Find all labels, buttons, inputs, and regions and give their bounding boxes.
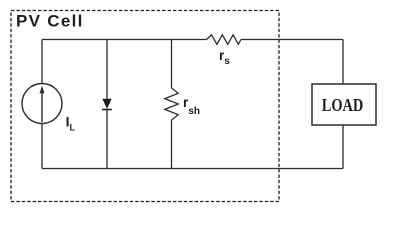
svg-text:IL: IL	[66, 114, 76, 133]
resistor r_sh	[165, 40, 178, 169]
wire: left branch above current source	[41, 40, 43, 84]
wire: top rail right segment	[241, 39, 343, 41]
diode	[102, 40, 112, 169]
wire: left branch below current source	[41, 124, 43, 169]
load LOAD box	[312, 84, 376, 125]
svg-text:rs: rs	[219, 48, 230, 67]
svg-text:rsh: rsh	[183, 95, 200, 117]
wire: top rail left segment	[42, 39, 207, 41]
wire: right drop to load top	[342, 40, 344, 85]
resistor r_s	[207, 35, 241, 45]
PV cell boundary (dashed box)	[11, 11, 279, 202]
svg-text:PV Cell: PV Cell	[16, 11, 84, 30]
wire: bottom rail	[42, 168, 343, 170]
current source IL	[22, 84, 62, 124]
svg-text:LOAD: LOAD	[322, 95, 364, 116]
wire: load bottom drop	[342, 125, 344, 169]
